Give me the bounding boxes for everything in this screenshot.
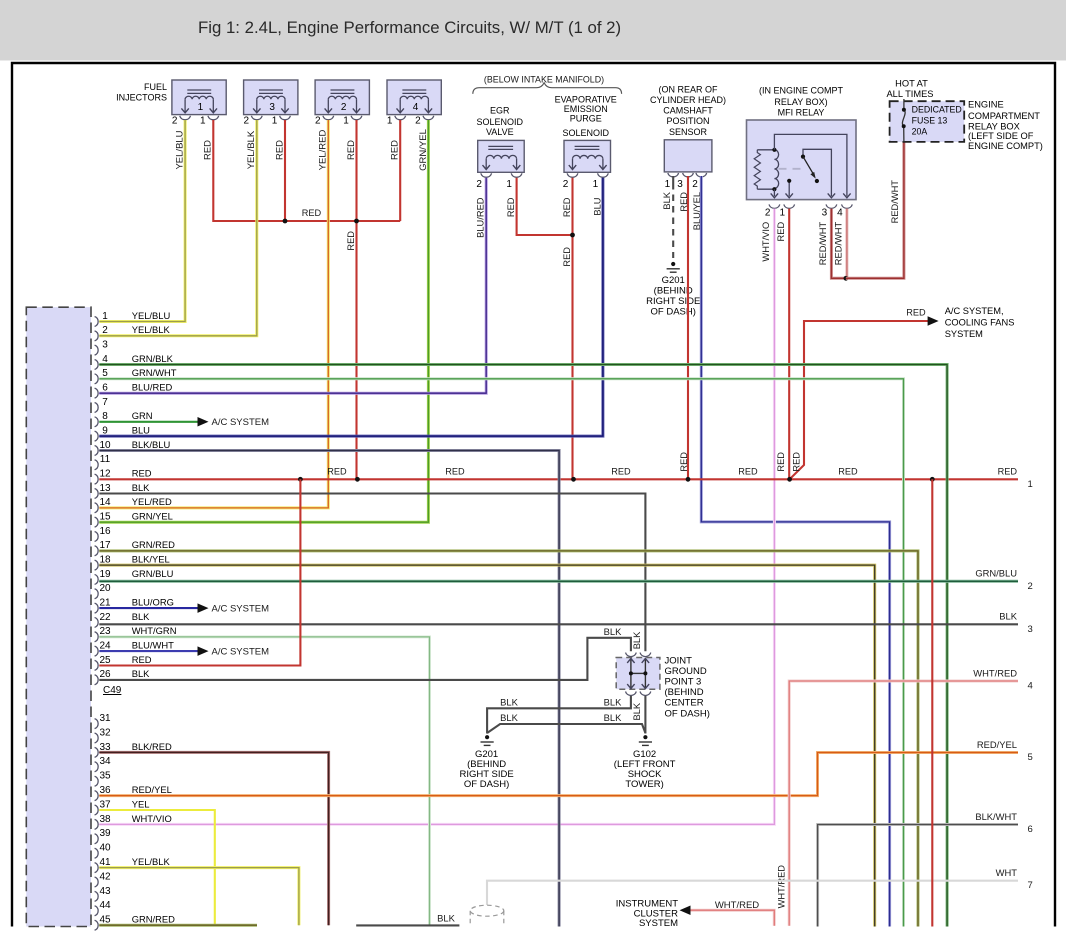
wire BLK pin 26 to joint ground point 3 xyxy=(99,638,631,680)
ground G102 xyxy=(639,735,652,745)
svg-text:PURGE: PURGE xyxy=(570,113,602,123)
svg-text:BLU/RED: BLU/RED xyxy=(132,382,173,393)
wire BLK solid stub sensor pin1 xyxy=(672,176,674,183)
svg-text:GRN/BLK: GRN/BLK xyxy=(132,353,174,364)
svg-text:BLK: BLK xyxy=(604,712,622,723)
wire GRN/BLU pin 19 to exit 2 xyxy=(99,580,1018,583)
junction dot EGR RED / purge RED xyxy=(570,233,575,238)
connector pin 19 xyxy=(95,568,174,585)
connector pin 20 xyxy=(95,583,111,599)
label (IN ENGINE COMPT RELAY BOX) MFI RELAY xyxy=(759,86,844,118)
wire BLU/RED EGR pin2 to connector pin 6 xyxy=(99,178,486,393)
relay pin cups xyxy=(769,204,852,208)
junction dot on RED bus at x=573.5 xyxy=(571,477,576,482)
svg-text:A/C SYSTEM: A/C SYSTEM xyxy=(212,603,270,614)
svg-text:7: 7 xyxy=(102,397,108,408)
joint ground point 3 box (dashed) xyxy=(616,658,660,690)
svg-text:FUEL: FUEL xyxy=(144,82,167,92)
svg-text:2: 2 xyxy=(102,325,108,336)
connector pin 9 xyxy=(95,425,151,442)
svg-text:BLK: BLK xyxy=(632,631,642,649)
label HOT AT ALL TIMES xyxy=(886,79,933,99)
svg-text:BLK: BLK xyxy=(500,712,518,723)
svg-text:2: 2 xyxy=(415,116,421,127)
injector 4 pin numbers xyxy=(387,116,421,127)
svg-text:3: 3 xyxy=(102,340,108,351)
junction dot on RED bus at x=357.4 xyxy=(355,477,360,482)
connector pin 36 xyxy=(95,784,172,801)
injector 3 pin cups xyxy=(251,116,290,120)
relay coil xyxy=(774,150,778,189)
connector pin 4 xyxy=(95,353,174,370)
wire BLU/WHT pin 24 to A/C system xyxy=(99,650,197,652)
junction dot on RED bus at x=932.3 xyxy=(930,477,935,482)
svg-text:RELAY BOX: RELAY BOX xyxy=(968,122,1020,132)
svg-text:1: 1 xyxy=(387,116,393,127)
connector pin 34 xyxy=(95,756,111,772)
svg-text:OF DASH): OF DASH) xyxy=(665,708,710,719)
svg-text:1: 1 xyxy=(780,207,786,218)
svg-text:OF DASH): OF DASH) xyxy=(464,779,509,790)
svg-text:3: 3 xyxy=(269,102,275,113)
label JOINT GROUND POINT 3 (BEHIND CENTER OF DASH) xyxy=(665,655,710,719)
svg-text:42: 42 xyxy=(99,871,111,882)
title bar xyxy=(0,0,1066,61)
wire GRN/WHT pin 5 right and down to bottom xyxy=(99,379,903,927)
connector pin 15 xyxy=(95,511,173,528)
svg-text:14: 14 xyxy=(99,497,111,508)
relay pin numbers 2 1 3 4 xyxy=(765,207,843,218)
label ENGINE COMPARTMENT RELAY BOX (LEFT SIDE OF ENGINE COMPT) xyxy=(968,99,1043,151)
svg-text:RED: RED xyxy=(346,140,357,160)
connector pin 10 xyxy=(95,439,171,456)
label: FUEL INJECTORS xyxy=(116,82,167,103)
wire WHT/VIO relay pin2 to connector pin 38 xyxy=(99,209,774,825)
connector pin 25 xyxy=(95,654,152,671)
fuse 13 element xyxy=(902,99,905,142)
evaporative emission purge solenoid pin numbers 2 1 xyxy=(563,179,599,190)
svg-text:2: 2 xyxy=(765,207,771,218)
svg-text:20A: 20A xyxy=(912,126,928,136)
svg-text:BLK: BLK xyxy=(662,191,672,209)
wire RED/WHT relay pin4 down xyxy=(845,209,848,279)
joint ground point 3 internal arrows xyxy=(631,659,646,689)
svg-text:JOINT: JOINT xyxy=(665,655,693,666)
connector pin 16 xyxy=(95,526,111,542)
wire BLK/YEL pin 18 right and down to bottom xyxy=(99,565,874,926)
svg-text:DEDICATED: DEDICATED xyxy=(912,105,962,115)
svg-text:BLK: BLK xyxy=(632,702,642,720)
svg-text:YEL/BLK: YEL/BLK xyxy=(132,856,171,867)
svg-text:POINT 3: POINT 3 xyxy=(665,677,702,688)
svg-text:A/C SYSTEM: A/C SYSTEM xyxy=(212,417,270,428)
label G102 (LEFT FRONT SHOCK TOWER) xyxy=(614,749,676,790)
relay mechanical link dashed xyxy=(779,168,807,170)
connector pin 17 xyxy=(95,539,176,556)
relay resistor xyxy=(754,150,760,189)
svg-text:31: 31 xyxy=(99,713,111,724)
evaporative emission purge solenoid pin cups xyxy=(567,173,608,177)
wire BLK tie G201 to G102 xyxy=(487,724,645,733)
wire WHT/RED from bottom to exit 4 xyxy=(789,681,1018,926)
wire YEL/BLK pin 41 right and down to bottom xyxy=(99,868,299,926)
svg-text:RED: RED xyxy=(390,140,401,160)
arrowhead to A/C system cooling fans xyxy=(928,316,939,326)
svg-text:EVAPORATIVE: EVAPORATIVE xyxy=(555,94,617,104)
relay node: coil bottom xyxy=(772,187,776,191)
joint ground point 3 cups xyxy=(626,653,651,696)
svg-text:RED/YEL: RED/YEL xyxy=(977,739,1017,750)
svg-text:BLK: BLK xyxy=(437,912,455,923)
ground G201 (joint ground) xyxy=(481,735,494,745)
svg-text:9: 9 xyxy=(102,426,108,437)
svg-text:RED: RED xyxy=(203,140,214,160)
junction dot on RED bus at x=300.4 xyxy=(298,477,303,482)
wire BLK/WHT from bottom to exit 6 xyxy=(818,825,1018,927)
wire BLK joint ground to G201 xyxy=(487,696,631,734)
evaporative emission purge solenoid box xyxy=(564,140,611,172)
svg-text:2: 2 xyxy=(476,179,482,190)
svg-text:RELAY BOX): RELAY BOX) xyxy=(774,97,827,107)
connector pin 24 xyxy=(95,639,175,656)
svg-text:GRN/WHT: GRN/WHT xyxy=(132,367,177,378)
svg-text:2: 2 xyxy=(172,116,178,127)
connector pin 13 xyxy=(95,482,151,499)
svg-text:BLK/YEL: BLK/YEL xyxy=(132,554,170,565)
svg-text:15: 15 xyxy=(99,512,111,523)
injector 1 pin numbers xyxy=(172,116,206,127)
svg-text:BLK/BLU: BLK/BLU xyxy=(132,439,171,450)
arrowhead A/C system (pin 8) xyxy=(198,417,209,427)
brace below intake manifold xyxy=(473,83,622,94)
connector pin 21 xyxy=(95,597,174,614)
svg-text:RIGHT SIDE: RIGHT SIDE xyxy=(646,296,700,307)
camshaft position sensor box xyxy=(664,140,712,172)
svg-text:RED/WHT: RED/WHT xyxy=(834,221,844,265)
svg-text:RED/YEL: RED/YEL xyxy=(132,784,172,795)
svg-text:34: 34 xyxy=(99,756,111,767)
connector pin 40 xyxy=(95,843,111,859)
arrowhead A/C system (pin 21) xyxy=(198,603,209,613)
svg-text:EMISSION: EMISSION xyxy=(564,104,608,114)
svg-text:39: 39 xyxy=(99,828,111,839)
connector pin 14 xyxy=(95,496,172,513)
svg-text:BLK: BLK xyxy=(999,611,1017,622)
svg-text:2: 2 xyxy=(692,179,698,190)
wire RED from main bus down to bottom xyxy=(931,479,933,926)
svg-text:ENGINE: ENGINE xyxy=(968,99,1004,109)
arrowhead to instrument cluster system xyxy=(680,905,691,915)
svg-text:BLK: BLK xyxy=(132,611,150,622)
svg-text:RED: RED xyxy=(562,247,572,267)
svg-text:RED: RED xyxy=(302,208,322,218)
svg-text:(ON REAR OF: (ON REAR OF xyxy=(658,84,718,94)
svg-text:6: 6 xyxy=(1028,824,1033,835)
svg-text:MFI RELAY: MFI RELAY xyxy=(778,107,825,117)
relay internal wires: resistor parallel to coil xyxy=(757,150,774,189)
wire RED injector feed bus xyxy=(213,120,400,221)
svg-text:20: 20 xyxy=(99,583,111,594)
svg-text:A/C SYSTEM,: A/C SYSTEM, xyxy=(945,306,1004,316)
connector pin 41 xyxy=(95,856,171,873)
wire GRN/RED pin 45 xyxy=(99,924,257,927)
shield symbol (dashed cylinder, continues on page 2) xyxy=(470,905,504,926)
EGR solenoid valve pin cups xyxy=(481,173,522,177)
wire BLU purge pin1 to connector pin 9 xyxy=(99,178,603,436)
camshaft sensor pin cups xyxy=(668,173,707,177)
svg-text:RED: RED xyxy=(906,307,926,317)
svg-text:A/C SYSTEM: A/C SYSTEM xyxy=(212,646,270,657)
relay pin 1 stub xyxy=(788,181,790,196)
svg-text:GRN/BLU: GRN/BLU xyxy=(132,568,174,579)
label G201 (BEHIND RIGHT SIDE OF DASH) xyxy=(646,275,700,318)
svg-text:RED: RED xyxy=(132,654,152,665)
svg-text:BLU: BLU xyxy=(132,425,150,436)
svg-text:YEL/RED: YEL/RED xyxy=(132,496,172,507)
wire WHT/RED to instrument cluster system xyxy=(688,910,774,926)
svg-text:BLK: BLK xyxy=(132,668,150,679)
svg-text:2: 2 xyxy=(1028,581,1033,592)
svg-text:BLK/RED: BLK/RED xyxy=(132,741,172,752)
relay node: coil top xyxy=(772,148,776,152)
svg-text:2: 2 xyxy=(244,116,250,127)
camshaft sensor pin numbers 1 3 2 xyxy=(665,179,699,190)
wire WHT from shield to exit 7 xyxy=(487,881,1018,905)
svg-text:WHT/VIO: WHT/VIO xyxy=(132,813,172,824)
svg-text:ALL TIMES: ALL TIMES xyxy=(886,89,933,99)
wire BLK/RED pin 33 right and down to bottom xyxy=(99,752,328,925)
svg-text:40: 40 xyxy=(99,843,111,854)
svg-text:GRN/YEL: GRN/YEL xyxy=(132,511,173,522)
connector pin 26 xyxy=(95,668,151,685)
svg-text:2: 2 xyxy=(341,102,347,113)
svg-text:BLK: BLK xyxy=(132,482,150,493)
svg-text:G201: G201 xyxy=(662,275,685,286)
junction dot injector bus / injector 3 xyxy=(283,219,288,224)
svg-text:11: 11 xyxy=(100,454,111,465)
svg-text:YEL/BLK: YEL/BLK xyxy=(132,324,171,335)
label INSTRUMENT CLUSTER SYSTEM xyxy=(616,899,678,929)
svg-text:C49: C49 xyxy=(103,685,122,696)
svg-text:POSITION: POSITION xyxy=(666,116,709,126)
svg-text:8: 8 xyxy=(102,411,108,422)
svg-text:RED: RED xyxy=(611,467,631,477)
connector pin 37 xyxy=(95,798,150,815)
relay wire: coil bottom to pin 2 xyxy=(773,189,775,196)
svg-text:OF DASH): OF DASH) xyxy=(651,307,696,318)
wire RED/YEL pin 36 to exit 5 xyxy=(99,753,1018,796)
wire RED/WHT relay pin3 down and right xyxy=(831,209,846,279)
svg-text:3: 3 xyxy=(1028,624,1033,635)
svg-text:GRN/RED: GRN/RED xyxy=(132,914,175,925)
wire GRN/BLK pin 4 right and down to bottom xyxy=(99,365,947,927)
svg-text:RED: RED xyxy=(998,467,1018,477)
connector pin 35 xyxy=(95,771,111,787)
injector 1 pin cups xyxy=(180,116,219,120)
label EVAPORATIVE EMISSION PURGE SOLENOID xyxy=(555,94,617,138)
svg-text:BLK: BLK xyxy=(604,626,622,637)
wire RED to A/C system cooling fans xyxy=(790,321,928,479)
svg-text:2: 2 xyxy=(315,116,321,127)
wire RED relay pin1 down to main RED bus xyxy=(788,209,790,480)
relay switch pivot xyxy=(801,155,805,159)
svg-text:RED: RED xyxy=(346,231,356,251)
svg-text:SOLENOID: SOLENOID xyxy=(562,128,609,138)
wire WHT/GRN pin 23 right and down to bottom xyxy=(99,637,429,927)
svg-text:TOWER): TOWER) xyxy=(625,779,663,790)
label (ON REAR OF CYLINDER HEAD) CAMSHAFT POSITION SENSOR xyxy=(650,84,726,136)
label G201 (BEHIND RIGHT SIDE OF DASH) lower xyxy=(459,749,513,790)
svg-text:GRN: GRN xyxy=(132,410,153,421)
svg-text:RED: RED xyxy=(327,467,347,477)
fuel injector 4 box xyxy=(387,80,441,115)
svg-text:FUSE 13: FUSE 13 xyxy=(912,115,948,125)
svg-text:BLK: BLK xyxy=(500,696,518,707)
svg-text:WHT: WHT xyxy=(996,867,1018,878)
svg-text:1: 1 xyxy=(506,179,512,190)
joint ground crossbar dot left xyxy=(629,671,633,675)
connector pin 45 xyxy=(95,914,176,931)
svg-text:BLU/RED: BLU/RED xyxy=(476,197,486,238)
svg-text:RED/WHT: RED/WHT xyxy=(890,180,900,224)
svg-text:RED: RED xyxy=(776,452,786,472)
connector pin 31 xyxy=(95,713,111,729)
ground G201 (camshaft sensor) xyxy=(667,262,680,272)
label EGR SOLENOID VALVE xyxy=(477,105,524,137)
wire BLK dashed sensor pin1 to ground G201 xyxy=(672,183,674,258)
connector pin 43 xyxy=(95,886,111,902)
relay switch contact dot xyxy=(815,179,819,183)
svg-text:(LEFT SIDE OF: (LEFT SIDE OF xyxy=(968,131,1034,141)
svg-text:32: 32 xyxy=(99,727,111,738)
wire RED sensor pin3 down to main RED bus xyxy=(687,176,689,479)
connector pin 22 xyxy=(95,611,151,628)
svg-text:SYSTEM: SYSTEM xyxy=(639,918,678,929)
junction dot on RED bus at x=789.6 xyxy=(787,477,792,482)
injector 3 pin numbers xyxy=(244,116,278,127)
svg-text:3: 3 xyxy=(822,207,828,218)
connector pin 5 xyxy=(95,367,177,384)
wire BLK joint ground to G102 xyxy=(644,696,646,734)
connector pin 8 xyxy=(95,410,153,427)
fuel injector 1 box xyxy=(172,80,226,115)
svg-text:1: 1 xyxy=(272,116,278,127)
svg-text:2: 2 xyxy=(563,179,569,190)
svg-text:INJECTORS: INJECTORS xyxy=(116,93,167,103)
svg-text:1: 1 xyxy=(200,116,206,127)
svg-text:4: 4 xyxy=(837,207,843,218)
svg-text:RED: RED xyxy=(445,467,465,477)
connector pin 6 xyxy=(95,382,173,399)
wire RED EGR pin1 to purge solenoid RED xyxy=(517,178,573,235)
svg-text:RED: RED xyxy=(776,222,786,242)
svg-text:5: 5 xyxy=(1028,752,1033,763)
svg-text:37: 37 xyxy=(99,799,111,810)
svg-text:1: 1 xyxy=(343,116,349,127)
connector pin 39 xyxy=(95,828,111,844)
label A/C SYSTEM, COOLING FANS SYSTEM xyxy=(945,306,1015,339)
fuse element top dot xyxy=(902,108,906,112)
svg-text:BLK/WHT: BLK/WHT xyxy=(975,811,1017,822)
svg-text:WHT/RED: WHT/RED xyxy=(973,667,1017,678)
svg-text:7: 7 xyxy=(1028,880,1033,891)
wire RED purge pin2 down to main RED bus xyxy=(571,178,573,480)
svg-text:SOLENOID: SOLENOID xyxy=(477,117,524,127)
wire YEL/BLK injector 3 pin2 to connector pin 2 xyxy=(99,120,256,336)
svg-text:22: 22 xyxy=(99,612,111,623)
svg-text:19: 19 xyxy=(99,569,111,580)
svg-text:BLU/ORG: BLU/ORG xyxy=(132,597,174,608)
svg-text:YEL/BLU: YEL/BLU xyxy=(132,310,171,321)
svg-text:1: 1 xyxy=(1028,479,1033,490)
svg-text:RED: RED xyxy=(738,467,758,477)
connector pin 32 xyxy=(95,727,111,743)
svg-text:BLU: BLU xyxy=(592,198,602,216)
wire RED/WHT from fuse 13 down and left to relay xyxy=(846,142,904,278)
relay switch common bar to pin 3 xyxy=(803,149,831,196)
svg-text:RED: RED xyxy=(132,468,152,479)
svg-text:(IN ENGINE COMPT: (IN ENGINE COMPT xyxy=(759,86,844,96)
wire BLK/BLU pin 10 right and down to bottom xyxy=(99,451,559,927)
fuel injector 2 box xyxy=(315,80,369,115)
connector pin 33 xyxy=(95,741,172,758)
svg-text:3: 3 xyxy=(677,179,683,190)
connector pin 42 xyxy=(95,871,111,887)
svg-text:6: 6 xyxy=(102,383,108,394)
wire BLK pin 13 to joint ground point 3 xyxy=(99,494,645,652)
connector pin 38 xyxy=(95,813,172,830)
connector pin 11 xyxy=(95,454,111,470)
EGR solenoid valve pin numbers 2 1 xyxy=(476,179,512,190)
svg-text:1: 1 xyxy=(665,179,671,190)
svg-text:ENGINE COMPT): ENGINE COMPT) xyxy=(968,141,1043,151)
relay pin arrowheads xyxy=(771,193,851,197)
svg-text:BLU/WHT: BLU/WHT xyxy=(132,639,174,650)
injector 2 pin numbers xyxy=(315,116,349,127)
svg-text:1: 1 xyxy=(102,311,108,322)
relay pin 1 terminal dot xyxy=(787,179,791,183)
connector pin 7 xyxy=(95,397,109,413)
svg-text:16: 16 xyxy=(99,526,111,537)
wire YEL/RED injector 2 pin2 to connector pin 14 xyxy=(99,120,328,508)
fuel injector 3 box xyxy=(244,80,298,115)
svg-text:EGR: EGR xyxy=(490,105,510,115)
svg-text:43: 43 xyxy=(99,886,111,897)
svg-text:BLK: BLK xyxy=(604,696,622,707)
wire GRN/YEL injector 4 pin2 to connector pin 15 xyxy=(99,120,428,522)
svg-text:GROUND: GROUND xyxy=(665,666,707,677)
svg-text:1: 1 xyxy=(198,102,204,113)
wire YEL pin 37 right and down to bottom xyxy=(99,810,215,925)
wire RED main bus pin 12 to exit 1 xyxy=(99,478,1018,480)
svg-text:COOLING FANS: COOLING FANS xyxy=(945,318,1015,328)
svg-text:RED/WHT: RED/WHT xyxy=(818,221,828,265)
connector pin 1 xyxy=(95,310,171,327)
svg-text:21: 21 xyxy=(99,598,111,609)
junction dot RED/WHT pins 3-4 / fuse feed xyxy=(844,276,849,281)
svg-text:12: 12 xyxy=(99,469,111,480)
svg-text:CAMSHAFT: CAMSHAFT xyxy=(663,106,713,116)
svg-text:COMPARTMENT: COMPARTMENT xyxy=(968,111,1040,121)
svg-text:GRN/BLU: GRN/BLU xyxy=(975,568,1017,579)
svg-text:4: 4 xyxy=(413,102,419,113)
EGR solenoid valve box xyxy=(478,140,525,172)
joint ground crossbar dot right xyxy=(643,671,647,675)
fuse element bottom dot xyxy=(902,124,906,128)
svg-text:24: 24 xyxy=(99,640,111,651)
junction dot injector bus / injector 2 xyxy=(354,219,359,224)
wire BLK pin 22 to exit 3 xyxy=(99,623,1018,625)
